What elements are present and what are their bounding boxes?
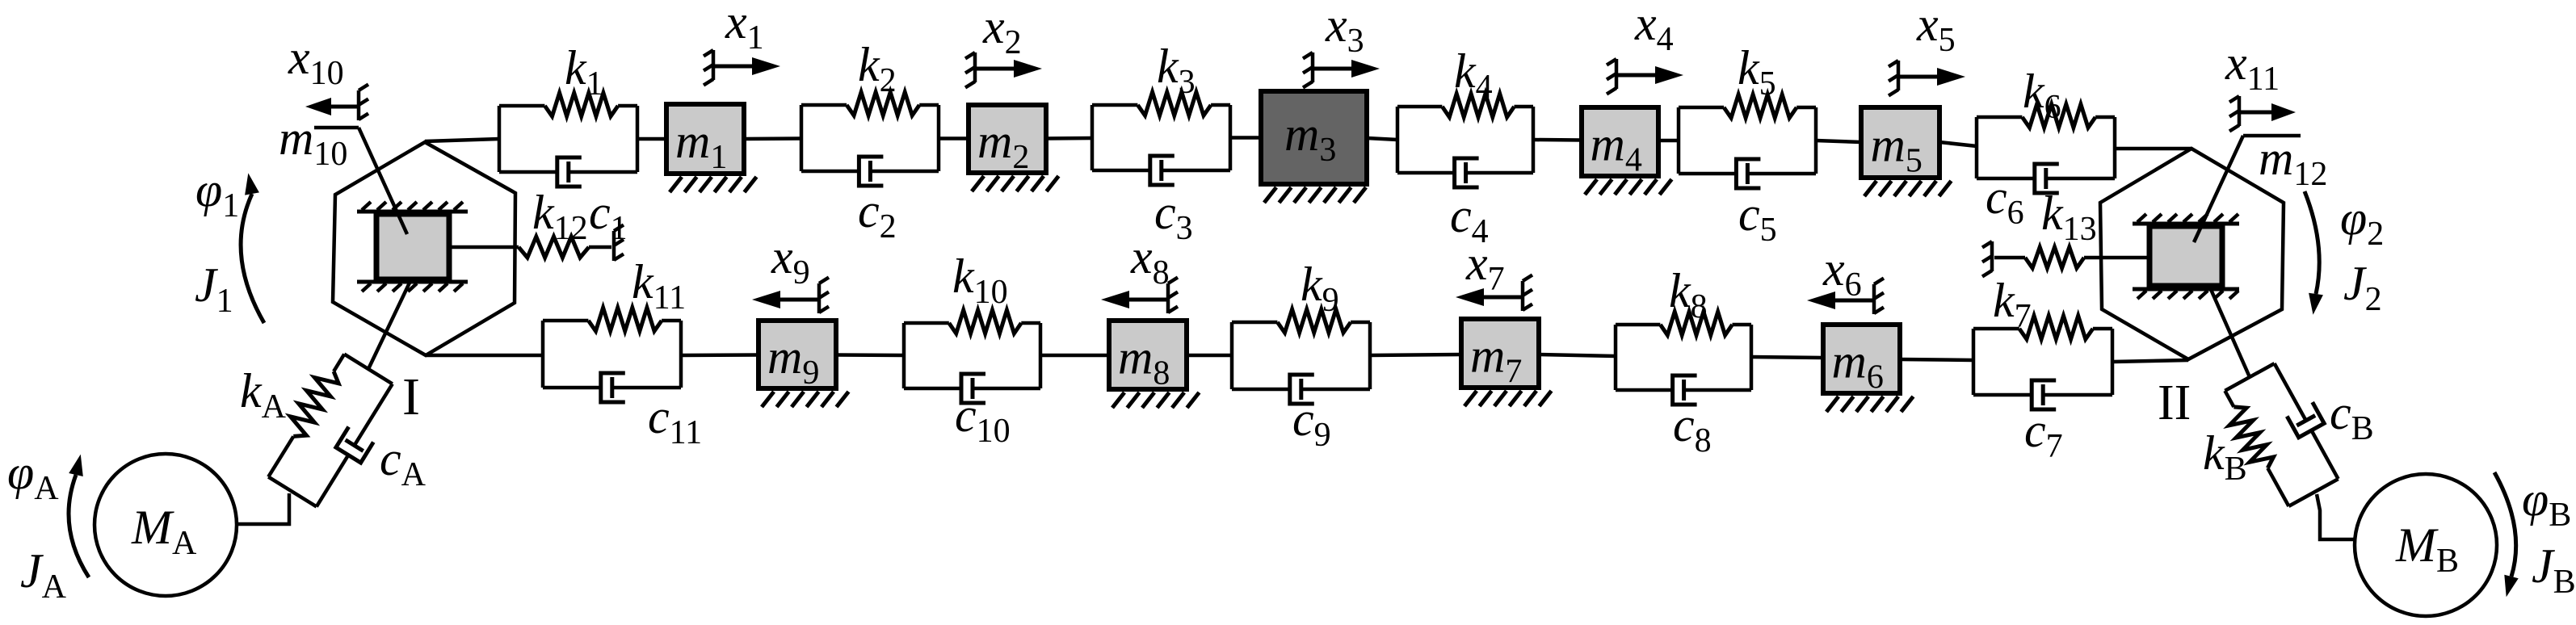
svg-text:II: II	[2158, 375, 2191, 430]
svg-text:I: I	[402, 367, 420, 426]
